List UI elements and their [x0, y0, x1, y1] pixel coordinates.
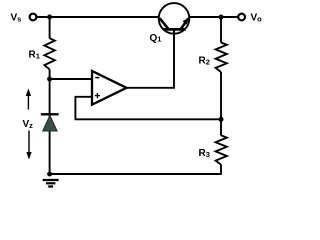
wire to op-amp inverting input [50, 78, 92, 80]
arrow down (Vz annotation) [28, 131, 30, 154]
svg-text:Vo: Vo [251, 13, 263, 24]
terminal Vo [238, 14, 245, 21]
wire right vertical top to R2 [220, 17, 222, 43]
zener diode Vz cathode bar [41, 113, 59, 115]
svg-text:Q1: Q1 [150, 33, 162, 44]
op-amp non-inverting pin mark [95, 95, 100, 97]
resistor R2 [216, 43, 227, 73]
op-amp inverting pin mark [95, 77, 99, 79]
node feedback junction [219, 117, 224, 122]
wire left vertical through zener to ground [49, 79, 51, 174]
node below R1 (reference node) [47, 77, 52, 82]
wire top rail left (Vs to Q1 collector) [37, 16, 159, 18]
wire R1 bottom to node [49, 69, 51, 79]
wire op-amp output to Q1 base [127, 29, 175, 87]
svg-text:R3: R3 [199, 148, 210, 159]
zener diode Vz anode triangle [43, 115, 57, 131]
node junction Vs/R1 [47, 15, 52, 20]
resistor R3 [216, 135, 227, 164]
svg-text:Vs: Vs [11, 13, 22, 24]
op-amp U1 [92, 71, 127, 105]
wire top rail right (Q1 emitter to Vo) [189, 16, 238, 18]
arrow up (Vz annotation) [27, 94, 29, 110]
terminal Vs [30, 14, 37, 21]
wire R3 bottom to bottom rail [220, 165, 222, 175]
svg-text:R2: R2 [199, 56, 210, 67]
wire bottom rail [50, 173, 221, 175]
transistor Q1 collector lead [160, 18, 169, 29]
ground [43, 179, 59, 181]
node collector top right [219, 15, 224, 20]
node ground junction [47, 172, 52, 177]
wire R2 bottom to feedback node [220, 72, 222, 119]
transistor Q1 body circle [159, 3, 190, 34]
resistor R1 [44, 38, 54, 69]
transistor Q1 emitter lead with arrow [181, 18, 189, 29]
svg-text:Vz: Vz [23, 119, 34, 130]
transistor Q1 base bar [164, 28, 186, 31]
wire feedback to op-amp non-inverting input [75, 97, 221, 120]
wire feedback node down to R3 [220, 119, 222, 135]
wire from top rail down to R1 [49, 17, 51, 38]
svg-text:R1: R1 [29, 50, 40, 61]
